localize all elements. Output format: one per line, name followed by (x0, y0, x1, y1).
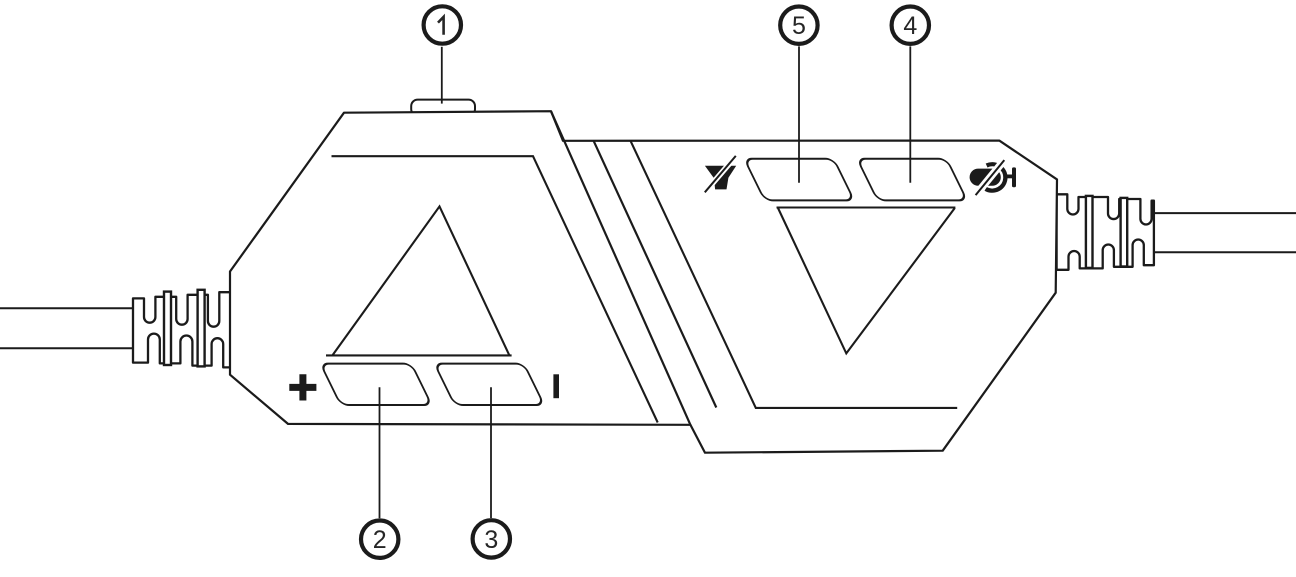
callout circle 4 (892, 7, 929, 44)
right strain relief bellows (1057, 194, 1154, 269)
mic mute icon (970, 157, 1016, 199)
button 1 (top small button) (411, 100, 475, 116)
speaker mute icon (703, 154, 738, 195)
svg-text:3: 3 (484, 526, 498, 554)
button 5 (speaker mute) (744, 159, 854, 201)
left cable (0, 308, 134, 348)
svg-text:2: 2 (373, 526, 387, 554)
callout circle 3 (473, 520, 510, 557)
volume-up triangle (left pod) (326, 206, 512, 355)
body outline (both pods) (230, 111, 1057, 453)
left pod inner panel line + crease L1 (332, 156, 658, 422)
right cable (1153, 213, 1296, 252)
rib 2 (198, 290, 205, 367)
callout circle 2 (361, 521, 398, 558)
leader line 1 (441, 47, 443, 104)
plus icon (289, 374, 316, 400)
callout circle 5 (780, 7, 817, 44)
leader line 5 (798, 46, 800, 182)
svg-text:4: 4 (903, 12, 917, 40)
callout circle 1 (424, 6, 461, 43)
svg-text:5: 5 (792, 12, 806, 40)
leader line 2 (379, 387, 381, 518)
leader line 3 (490, 387, 492, 518)
left strain relief bellows (133, 290, 231, 368)
crease line L2 (waist left edge) (551, 111, 690, 425)
rib 1 (164, 292, 171, 365)
rib 2 (right side) (1121, 198, 1128, 267)
button 2 (volume +) (320, 364, 431, 405)
volume-down triangle (right pod) (777, 208, 956, 354)
leader line 4 (909, 46, 911, 182)
rib 1 (right side) (1086, 196, 1093, 268)
right pod inner panel line + crease L4 (631, 141, 958, 408)
crease line L3 (waist face line) (594, 141, 717, 408)
button 4 (mic mute) (857, 159, 967, 201)
button 3 (power) (434, 364, 544, 405)
power bar icon (553, 374, 559, 398)
